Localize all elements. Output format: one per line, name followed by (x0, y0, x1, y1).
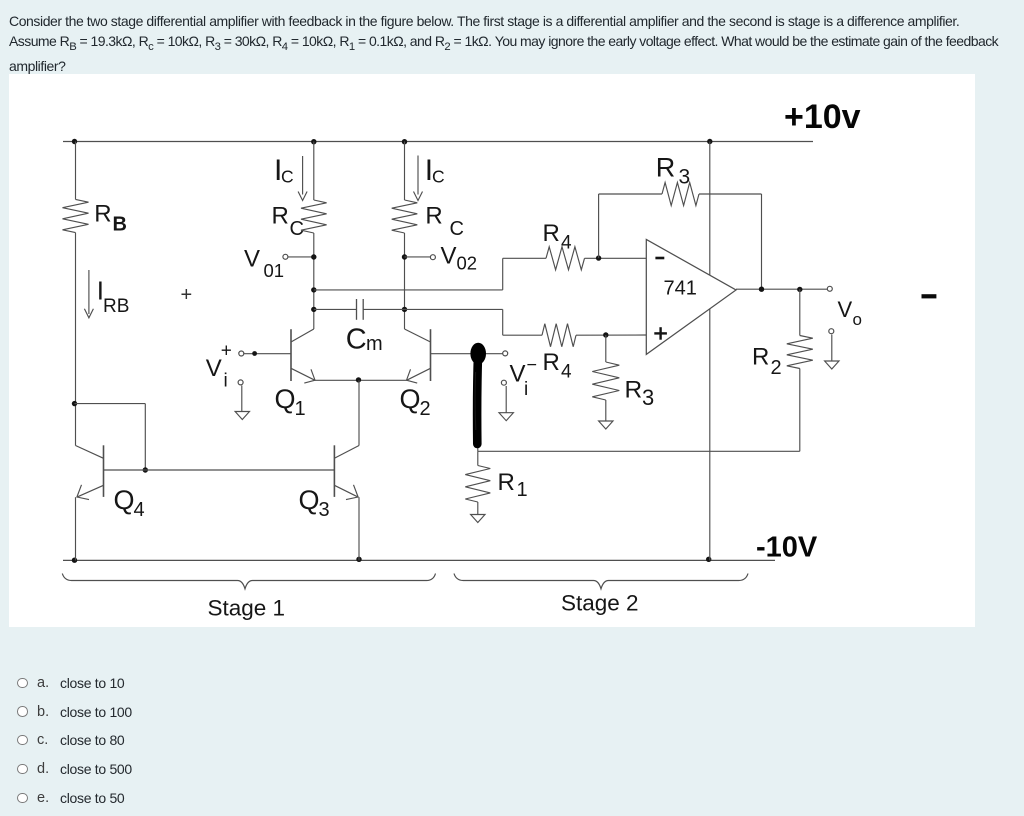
transistor Q2 emitter diagonal with arrow (407, 368, 431, 380)
svg-text:Stage 1: Stage 1 (208, 596, 286, 621)
op-amp inverting input minus sign (655, 257, 664, 260)
wire inverting node up to feedback resistor R3 (598, 194, 600, 258)
svg-text:+: + (181, 284, 193, 306)
svg-text:Q: Q (400, 384, 421, 414)
svg-text:R: R (498, 469, 515, 496)
wire jog vertical (upper) (502, 258, 504, 290)
svg-text:Stage 2: Stage 2 (561, 591, 639, 616)
node junction dot top rail at Q2 collector branch (402, 139, 407, 144)
svg-text:+: + (221, 341, 232, 362)
svg-text:02: 02 (457, 253, 478, 274)
arrow Vi- reference to ground (505, 386, 507, 413)
wire -10V bottom rail (63, 559, 775, 561)
svg-text:C: C (346, 324, 367, 356)
svg-text:01: 01 (264, 260, 285, 281)
wire jog to resistor R4 upper (503, 257, 546, 259)
ground symbol under R1 (471, 515, 485, 523)
terminal circle Vi- reference (501, 380, 506, 385)
node dot output at R2 (797, 287, 802, 292)
wire jog to resistor R4 lower (503, 334, 542, 336)
current arrow IRB (88, 270, 90, 314)
svg-text:C: C (290, 218, 304, 240)
wire branch2 Cm node to jog (lower) (405, 308, 503, 310)
transistor Q4 collector diagonal (76, 446, 104, 459)
svg-text:Q: Q (275, 384, 296, 414)
wire Q1 base to Vi+ terminal (244, 353, 291, 355)
wire V01 node to jog (upper) (314, 289, 503, 291)
transistor Q2 base bar (430, 329, 432, 381)
svg-text:i: i (524, 379, 528, 400)
node V01 terminal circle (283, 254, 288, 259)
svg-text:o: o (853, 310, 862, 329)
svg-text:C: C (432, 167, 445, 187)
wire branch1 to capacitor Cm left plate (314, 308, 357, 310)
svg-text:3: 3 (679, 166, 691, 189)
transistor Q1 emitter diagonal with arrow (291, 368, 315, 380)
svg-text:i: i (224, 371, 228, 392)
transistor Q4 base bar (103, 445, 105, 497)
svg-text:R: R (752, 344, 769, 371)
terminal circle Vi- input (503, 351, 508, 356)
resistor R2 zigzag (787, 336, 813, 369)
node dot on Q1 base wire (252, 351, 257, 356)
svg-text:V: V (206, 355, 222, 382)
op-amp supply line upper segment (709, 142, 711, 276)
stage 1 brace (62, 574, 435, 589)
resistor R3 feedback zigzag (662, 183, 699, 206)
wire V01 stub (288, 256, 314, 258)
wire base line Q4 to Q3 (104, 469, 335, 471)
wire RB tie to current mirror base (75, 403, 146, 405)
transistor Q3 base bar (333, 445, 335, 497)
svg-text:C: C (281, 167, 294, 187)
wire RC1 to Q1 collector (313, 233, 315, 329)
terminal circle Vi+ input (239, 351, 244, 356)
ground symbol under Vo (825, 361, 839, 369)
node dot branch1 to upper R4 wire (311, 287, 316, 292)
svg-text:2: 2 (771, 357, 782, 379)
svg-text:3: 3 (319, 499, 330, 521)
wire R3 lower to ground (605, 400, 607, 421)
svg-text:−: − (527, 355, 538, 375)
node dot non-inverting input / R3 tap (603, 332, 608, 337)
transistor Q3 collector diagonal (334, 446, 359, 459)
svg-text:RB: RB (103, 296, 129, 317)
svg-text:741: 741 (664, 278, 697, 300)
wire V02 stub (405, 256, 431, 258)
op-amp U1 741 triangle body (646, 239, 736, 354)
svg-text:4: 4 (561, 362, 572, 383)
wire R2 down to feedback node (799, 369, 801, 452)
wire op-amp output (736, 288, 828, 290)
wire Q2 base to Vi- terminal (431, 353, 503, 355)
transistor Q2 collector diagonal (405, 329, 431, 342)
wire Q3 emitter to -10V rail (358, 497, 360, 560)
resistor R1 zigzag (465, 466, 490, 503)
wire from +10V rail to resistor RB (75, 142, 77, 200)
arrow Vo reference to ground (831, 335, 833, 362)
wire feedback down to output node (761, 194, 763, 289)
op-amp supply line lower segment (709, 309, 711, 561)
wire common emitters Q1-Q2 (315, 379, 407, 381)
svg-text:V: V (838, 297, 853, 322)
svg-text:m: m (366, 333, 383, 355)
wire +10V top rail (63, 141, 813, 143)
wire jog vertical (lower) (502, 309, 504, 335)
node dot V01 on branch1 (311, 254, 316, 259)
node V02 terminal circle (430, 255, 435, 260)
current arrow IC1 (302, 156, 304, 195)
node junction dot bottom rail left (Q4 emitter) (72, 558, 77, 563)
svg-text:R: R (543, 349, 560, 376)
ground symbol under Vi+ (235, 412, 249, 420)
resistor RB zigzag (63, 199, 89, 232)
resistor R4 lower zigzag (542, 324, 576, 347)
hand-drawn marker stroke over Vi- wire (473, 355, 482, 444)
wire RC2 to Q2 collector (404, 233, 406, 329)
wire common emitter node down to Q3 collector (358, 380, 360, 445)
svg-text:-10V: -10V (756, 532, 818, 564)
wire from RB down to Q4 collector (75, 233, 77, 446)
resistor R4 upper zigzag (546, 247, 585, 270)
node junction dot bottom rail at Q3 emitter (356, 557, 361, 562)
wire Cm right plate to branch2 (363, 308, 404, 310)
wire Q4 emitter to -10V rail (75, 497, 77, 560)
svg-text:Q: Q (299, 485, 320, 515)
arrow Vi+ reference to ground (241, 386, 243, 412)
svg-text:V: V (441, 243, 457, 270)
wire R4 lower to op-amp non-inverting input (576, 334, 646, 336)
node dot V02 on branch2 (402, 254, 407, 259)
svg-text:B: B (113, 214, 127, 236)
node dot branch1 to Cm wire (311, 307, 316, 312)
ground symbol under Vi- (499, 413, 513, 421)
svg-text:1: 1 (517, 479, 528, 501)
wire Vi- base node down to R1 (under marker) (477, 354, 479, 452)
transistor Q4 emitter diagonal with arrow (77, 485, 104, 497)
wire output down to resistor R2 (799, 289, 801, 335)
transistor Q1 collector diagonal (291, 329, 314, 342)
wire from +10V rail to resistor RC2 (404, 142, 406, 201)
svg-text:2: 2 (420, 398, 431, 420)
transistor Q3 emitter diagonal with arrow (334, 485, 358, 497)
node junction dot top rail at RB branch (72, 139, 77, 144)
wire to R3 feedback resistor (599, 193, 662, 195)
wire non-inverting node down to resistor R3 lower (605, 335, 607, 362)
svg-text:R: R (656, 152, 676, 182)
op-amp non-inverting input plus sign (654, 332, 667, 334)
node dot output feedback junction (759, 287, 764, 292)
node dot RB-to-base tie point (72, 401, 77, 406)
ground symbol under R3 lower (599, 421, 613, 429)
resistor R3 lower zigzag (592, 362, 619, 400)
node dot common emitter junction (356, 377, 361, 382)
polarity minus sign output (922, 294, 937, 298)
node junction dot top rail at Q1 collector branch (311, 139, 316, 144)
wire R3 feedback to output column (699, 193, 762, 195)
svg-text:1: 1 (295, 398, 306, 420)
svg-text:R: R (425, 203, 442, 230)
terminal circle Vo (827, 286, 832, 291)
stage 2 brace (454, 574, 748, 589)
wire R1 to ground (477, 502, 479, 515)
svg-text:R: R (543, 220, 560, 247)
node junction dot top rail at op-amp supply line (707, 139, 712, 144)
node junction dot bottom rail at op-amp supply line (706, 557, 711, 562)
wire R4 upper to op-amp inverting input (585, 257, 647, 259)
resistor RC2 zigzag (392, 200, 418, 233)
terminal circle Vi+ reference (238, 380, 243, 385)
transistor Q1 base bar (290, 329, 292, 381)
node dot on Q3 Q4 base line (143, 467, 148, 472)
svg-text:4: 4 (134, 499, 145, 521)
svg-text:V: V (244, 246, 260, 273)
node dot inverting input / R3 feedback tap (596, 255, 601, 260)
wire feedback bottom horizontal R2 to R1 node (478, 450, 800, 452)
resistor RC1 zigzag (301, 200, 327, 233)
capacitor Cm plates (356, 299, 358, 320)
svg-text:R: R (625, 377, 643, 404)
svg-text:R: R (272, 203, 289, 230)
svg-text:C: C (450, 218, 464, 240)
svg-text:+10v: +10v (784, 98, 861, 136)
svg-text:Q: Q (114, 485, 135, 515)
terminal circle Vo reference (829, 329, 834, 334)
svg-text:R: R (94, 201, 111, 228)
svg-text:4: 4 (561, 233, 572, 254)
node dot branch2 to Cm wire (402, 307, 407, 312)
current arrow IC2 (417, 156, 419, 195)
svg-text:3: 3 (642, 385, 654, 410)
wire from +10V rail to resistor RC1 (313, 142, 315, 201)
